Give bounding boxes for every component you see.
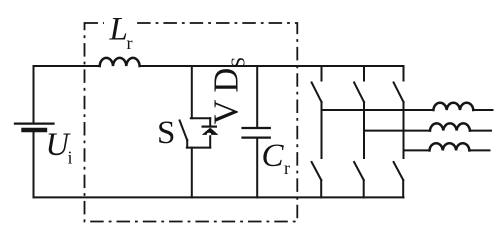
inverter leg1 top switch blade xyxy=(312,83,322,103)
battery plate long (positive) xyxy=(15,122,54,124)
inverter leg2 top stub xyxy=(363,66,365,81)
phase A load inductor xyxy=(433,103,473,110)
top rail (right segment) xyxy=(140,65,404,67)
wire capacitor top xyxy=(256,66,258,128)
diode VDs anode stub xyxy=(209,135,211,148)
switch S lower stub xyxy=(186,140,188,148)
capacitor Cr bottom plate xyxy=(243,137,270,139)
dash-dot box (resonant link boundary) xyxy=(85,23,298,222)
inverter leg2 bottom switch blade xyxy=(354,162,364,180)
diode VDs cathode bar xyxy=(203,125,216,127)
svg-text:VD: VD xyxy=(208,61,246,125)
inductor Lr coils xyxy=(100,58,140,66)
inverter leg3 middle wire xyxy=(403,102,405,158)
white gap under Lr label xyxy=(104,14,134,31)
phase C load inductor xyxy=(430,143,470,150)
switch/diode top bar xyxy=(191,117,210,119)
svg-text:r: r xyxy=(127,33,133,53)
wire switch branch top xyxy=(191,66,193,118)
inverter leg2 top switch blade xyxy=(354,83,364,103)
svg-text:S: S xyxy=(228,57,250,68)
wire battery bottom xyxy=(33,132,35,198)
svg-text:S: S xyxy=(157,115,175,151)
phase C tail wire xyxy=(469,149,489,151)
phase B load inductor xyxy=(430,123,470,130)
wire battery top xyxy=(33,66,35,123)
label VDs (rotated) xyxy=(208,57,250,125)
diode VDs triangle xyxy=(202,128,219,135)
inverter leg3 top switch blade xyxy=(394,83,404,103)
svg-text:L: L xyxy=(109,12,128,48)
inverter leg3 bottom stub xyxy=(402,180,404,197)
capacitor Cr top plate xyxy=(243,127,270,129)
bottom rail xyxy=(34,196,404,198)
inverter leg1 top stub xyxy=(321,66,323,81)
switch S blade xyxy=(180,120,188,140)
inverter leg3 bottom switch blade xyxy=(394,162,404,180)
phase A tail wire xyxy=(473,109,492,111)
inverter leg2 bottom stub xyxy=(363,180,365,197)
phase B output wire xyxy=(364,130,430,132)
diode white notch xyxy=(207,133,211,136)
inverter leg2 middle wire xyxy=(363,102,365,158)
battery plate short (negative) xyxy=(24,128,46,132)
inverter leg1 bottom stub xyxy=(320,180,322,197)
inverter leg3 top stub xyxy=(403,66,405,81)
svg-text:r: r xyxy=(284,158,290,178)
inverter leg1 bottom switch blade xyxy=(312,162,322,180)
svg-text:i: i xyxy=(68,148,73,168)
phase B tail wire xyxy=(470,130,491,132)
wire switch branch bottom xyxy=(191,148,193,198)
wire capacitor bottom xyxy=(256,138,258,198)
phase A output wire xyxy=(322,109,434,111)
top rail (left segment) xyxy=(34,65,100,67)
svg-text:C: C xyxy=(262,138,285,174)
inverter leg1 middle wire xyxy=(321,102,323,158)
phase C output wire xyxy=(404,149,430,151)
switch/diode bottom bar xyxy=(187,147,210,149)
diode VDs top stub xyxy=(209,118,211,126)
